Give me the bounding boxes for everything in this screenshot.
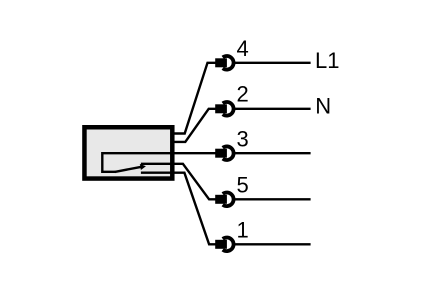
svg-text:N: N [315, 94, 331, 119]
terminal 3 plug square [215, 149, 227, 158]
wire to terminal 2 [173, 109, 216, 142]
terminal 1 plug square [215, 240, 227, 249]
svg-text:4: 4 [237, 36, 249, 61]
terminal 4 socket arc [223, 56, 234, 70]
svg-text:3: 3 [237, 126, 249, 151]
terminal 2 socket arc [223, 102, 234, 116]
terminal 1 socket arc [223, 237, 234, 251]
switch arm [115, 167, 142, 172]
terminal 5 plug square [215, 195, 227, 204]
switch arm arrowhead [140, 164, 146, 170]
svg-text:L1: L1 [315, 48, 339, 73]
fork contact top / wire to terminal 5 [141, 164, 216, 200]
terminal 2 plug square [215, 104, 227, 113]
svg-text:2: 2 [237, 82, 249, 107]
terminal 3 socket arc [223, 146, 234, 160]
fork contact bottom / wire to terminal 1 [141, 173, 216, 245]
wire pin3 common rail [102, 152, 215, 154]
terminal 5 socket arc [223, 192, 234, 206]
terminal 4 plug square [215, 58, 227, 67]
device box K1 [84, 127, 172, 178]
wire terminal 1 right [235, 243, 311, 245]
wire terminal 5 right [235, 198, 311, 200]
wire to terminal 4 [173, 63, 216, 134]
internal contact left vertical and stub [102, 152, 115, 172]
svg-text:5: 5 [237, 172, 249, 197]
wire terminal 3 right [235, 152, 311, 154]
svg-text:1: 1 [237, 218, 249, 243]
wire terminal 2 to N [235, 108, 311, 110]
wire terminal 4 to L1 [235, 62, 311, 64]
